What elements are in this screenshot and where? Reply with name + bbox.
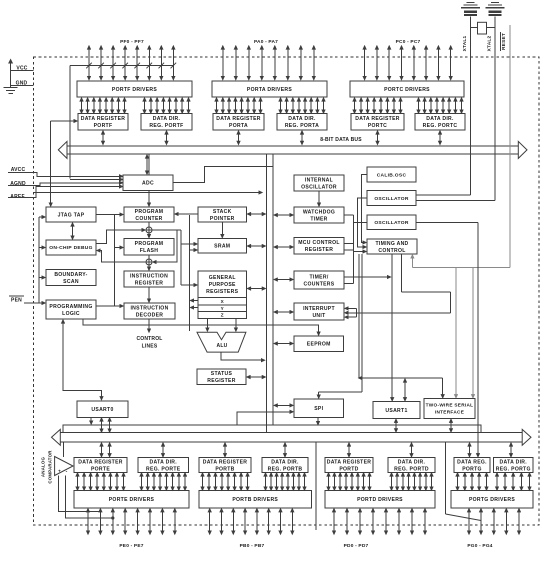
svg-text:SRAM: SRAM — [214, 244, 230, 250]
svg-text:DATA REGISTER: DATA REGISTER — [327, 459, 372, 465]
svg-text:POINTER: POINTER — [210, 216, 235, 222]
svg-text:COUNTERS: COUNTERS — [304, 281, 335, 287]
svg-text:DATA DIR.: DATA DIR. — [398, 459, 426, 465]
svg-text:ANALOG: ANALOG — [41, 457, 46, 478]
svg-text:GND: GND — [16, 80, 28, 86]
svg-text:MCU CONTROL: MCU CONTROL — [298, 240, 340, 246]
svg-text:TWO-WIRE SERIAL: TWO-WIRE SERIAL — [426, 403, 474, 408]
svg-text:LINES: LINES — [142, 344, 158, 350]
svg-text:XTAL1: XTAL1 — [462, 35, 468, 51]
svg-text:INSTRUCTION: INSTRUCTION — [130, 305, 168, 311]
svg-text:DATA REGISTER: DATA REGISTER — [216, 116, 261, 122]
svg-text:VCC: VCC — [16, 65, 27, 71]
svg-text:REG. PORTE: REG. PORTE — [146, 466, 181, 472]
svg-text:STACK: STACK — [213, 209, 232, 215]
svg-text:8-BIT DATA BUS: 8-BIT DATA BUS — [320, 137, 362, 143]
svg-text:INTERFACE: INTERFACE — [435, 410, 464, 415]
svg-text:DATA REGISTER: DATA REGISTER — [81, 116, 126, 122]
svg-text:DATA DIR.: DATA DIR. — [149, 459, 177, 465]
svg-text:WATCHDOG: WATCHDOG — [303, 209, 335, 215]
svg-text:DATA DIR.: DATA DIR. — [153, 116, 181, 122]
svg-text:CONTROL: CONTROL — [136, 336, 162, 342]
svg-text:OSCILLATOR: OSCILLATOR — [374, 220, 409, 226]
svg-text:DECODER: DECODER — [136, 312, 164, 318]
svg-text:PURPOSE: PURPOSE — [209, 282, 236, 288]
svg-text:INSTRUCTION: INSTRUCTION — [130, 273, 168, 279]
svg-text:OSCILLATOR: OSCILLATOR — [301, 184, 337, 190]
svg-text:DATA DIR.: DATA DIR. — [271, 459, 299, 465]
svg-text:PORTA: PORTA — [229, 123, 248, 129]
svg-text:INTERNAL: INTERNAL — [305, 177, 333, 183]
svg-text:PORTE: PORTE — [91, 466, 110, 472]
svg-text:ADC: ADC — [142, 181, 154, 187]
svg-text:PORTF: PORTF — [94, 123, 113, 129]
svg-text:PROGRAM: PROGRAM — [135, 241, 164, 247]
svg-text:USART1: USART1 — [385, 408, 407, 414]
svg-text:CALIB.OSC: CALIB.OSC — [377, 172, 407, 178]
svg-text:PD0 - PD7: PD0 - PD7 — [344, 543, 369, 549]
svg-text:RESET: RESET — [501, 33, 507, 50]
svg-text:REGISTER: REGISTER — [305, 247, 333, 253]
svg-text:REG. PORTD: REG. PORTD — [394, 466, 429, 472]
svg-text:Z: Z — [221, 313, 224, 318]
svg-text:COMPARATOR: COMPARATOR — [48, 450, 53, 484]
svg-text:PORTE DRIVERS: PORTE DRIVERS — [109, 497, 155, 503]
svg-text:DATA REG.: DATA REG. — [457, 459, 487, 465]
svg-text:BOUNDARY-: BOUNDARY- — [54, 272, 87, 278]
svg-text:DATA REGISTER: DATA REGISTER — [203, 459, 248, 465]
svg-text:UNIT: UNIT — [312, 313, 326, 319]
svg-text:INTERRUPT: INTERRUPT — [303, 306, 335, 312]
svg-text:OSCILLATOR: OSCILLATOR — [374, 196, 409, 202]
svg-text:JTAG TAP: JTAG TAP — [58, 212, 85, 218]
svg-text:TIMER/: TIMER/ — [309, 274, 328, 280]
svg-text:PF0 - PF7: PF0 - PF7 — [120, 39, 144, 45]
svg-text:EEPROM: EEPROM — [307, 342, 331, 348]
svg-text:DATA REGISTER: DATA REGISTER — [78, 459, 123, 465]
svg-text:PC0 - PC7: PC0 - PC7 — [396, 39, 421, 45]
svg-text:TIMING AND: TIMING AND — [375, 241, 408, 247]
svg-text:REGISTERS: REGISTERS — [206, 289, 238, 295]
svg-text:PROGRAMMING: PROGRAMMING — [49, 304, 92, 310]
svg-text:PORTG: PORTG — [462, 466, 482, 472]
svg-text:PORTB DRIVERS: PORTB DRIVERS — [232, 497, 278, 503]
svg-text:PORTA DRIVERS: PORTA DRIVERS — [247, 87, 293, 93]
svg-text:FLASH: FLASH — [140, 248, 158, 254]
svg-text:+: + — [58, 469, 61, 474]
svg-text:PE0 - PE7: PE0 - PE7 — [119, 543, 143, 549]
svg-text:ALU: ALU — [217, 343, 228, 349]
svg-text:LOGIC: LOGIC — [62, 311, 80, 317]
svg-text:ON-CHIP DEBUG: ON-CHIP DEBUG — [49, 245, 92, 251]
svg-text:PA0 - PA7: PA0 - PA7 — [254, 39, 278, 45]
svg-text:DATA DIR.: DATA DIR. — [426, 116, 454, 122]
svg-text:DATA REGISTER: DATA REGISTER — [355, 116, 400, 122]
svg-text:DATA DIR.: DATA DIR. — [288, 116, 316, 122]
svg-text:PG0 - PG4: PG0 - PG4 — [467, 543, 492, 549]
svg-text:XTAL2: XTAL2 — [487, 35, 493, 51]
svg-text:PEN: PEN — [11, 298, 22, 304]
svg-text:USART0: USART0 — [91, 407, 113, 413]
svg-text:REG. PORTC: REG. PORTC — [423, 123, 458, 129]
svg-text:PROGRAM: PROGRAM — [135, 209, 164, 215]
svg-text:REGISTER: REGISTER — [207, 378, 235, 384]
svg-text:REG. PORTA: REG. PORTA — [285, 123, 319, 129]
svg-text:REG. PORTF: REG. PORTF — [149, 123, 183, 129]
svg-text:PORTG DRIVERS: PORTG DRIVERS — [469, 497, 515, 503]
svg-text:AGND: AGND — [10, 181, 26, 187]
svg-text:PORTD: PORTD — [339, 466, 358, 472]
svg-text:DATA DIR.: DATA DIR. — [499, 459, 527, 465]
svg-text:PORTD DRIVERS: PORTD DRIVERS — [357, 497, 403, 503]
svg-text:REGISTER: REGISTER — [135, 280, 163, 286]
svg-text:COUNTER: COUNTER — [135, 216, 162, 222]
svg-text:Y: Y — [221, 306, 224, 311]
svg-text:PORTB: PORTB — [215, 466, 234, 472]
svg-text:SPI: SPI — [314, 406, 323, 412]
svg-text:PB0 - PB7: PB0 - PB7 — [240, 543, 265, 549]
svg-text:TIMER: TIMER — [310, 216, 327, 222]
svg-text:PORTC: PORTC — [368, 123, 387, 129]
svg-text:REG. PORTB: REG. PORTB — [268, 466, 303, 472]
svg-text:PORTC DRIVERS: PORTC DRIVERS — [384, 87, 430, 93]
svg-text:STATUS: STATUS — [211, 371, 233, 377]
svg-text:GENERAL: GENERAL — [209, 275, 236, 281]
svg-text:CONTROL: CONTROL — [378, 248, 405, 254]
svg-text:SCAN: SCAN — [63, 279, 79, 285]
svg-text:PORTF DRIVERS: PORTF DRIVERS — [112, 87, 158, 93]
svg-text:REG. PORTG: REG. PORTG — [496, 466, 531, 472]
